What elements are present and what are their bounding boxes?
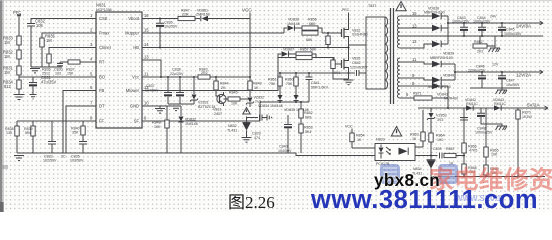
ground chassis (C848): [496, 126, 508, 130]
resistor R844: [215, 77, 217, 81]
svg-text:15: 15: [144, 28, 149, 33]
svg-text:C842: C842: [352, 61, 361, 65]
capacitor C832: [27, 24, 35, 65]
resistor R865 column: [485, 108, 487, 147]
svg-text:MBRF20H100: MBRF20H100: [430, 56, 453, 60]
svg-text:47K5: 47K5: [469, 149, 477, 153]
wire primary common rail: [17, 153, 375, 156]
wire sec center tap gnd rail: [400, 35, 543, 37]
wire pin15 Mupper gate: [142, 28, 342, 34]
svg-text:C839: C839: [433, 147, 442, 151]
wire half-bridge node: [348, 38, 350, 59]
resistor R848: [166, 106, 168, 120]
capacitor C838: [176, 77, 184, 93]
wire vcc gnd bus: [168, 103, 194, 105]
watermark logo disc 1: [380, 164, 400, 184]
wire pin4 RT: [60, 61, 96, 63]
svg-text:VD837: VD837: [283, 48, 294, 52]
resistor R851: [279, 73, 281, 77]
svg-text:47u/35V: 47u/35V: [41, 80, 57, 85]
capacitor C848: [477, 108, 485, 113]
svg-text:3V3: 3V3: [437, 118, 443, 122]
ground (C832): [30, 69, 40, 73]
capacitor C845: [498, 23, 506, 27]
resistor R843: [198, 75, 210, 79]
scan edge artifacts: [0, 0, 2, 212]
transformer primary winding arcs: [385, 17, 388, 89]
ground (lower MOSFET source): [344, 80, 354, 85]
resistor R832: [17, 50, 21, 59]
wire pin8 FF: [83, 121, 96, 126]
wire pin6 FB down: [63, 91, 96, 154]
svg-text:SF: SF: [134, 119, 140, 124]
svg-text:1M: 1M: [4, 40, 10, 45]
svg-text:RM11C: RM11C: [494, 102, 506, 106]
svg-text:1K: 1K: [357, 138, 362, 142]
capacitor C841: [306, 73, 313, 102]
resistor R857 (lower branch): [302, 31, 318, 35]
svg-text:N831: N831: [96, 3, 107, 8]
svg-text:VD834 1N4148: VD834 1N4148: [258, 104, 283, 108]
svg-text:12: 12: [412, 39, 417, 44]
wire R835 to gnd: [41, 47, 43, 67]
svg-text:10u/50V: 10u/50V: [164, 25, 178, 29]
watermark logo disc 2: [438, 164, 458, 184]
svg-text:SSS4N60: SSS4N60: [352, 33, 368, 37]
ground chassis (12V): [496, 88, 508, 94]
svg-text:www.3811111.com: www.3811111.com: [310, 186, 538, 212]
diode VD837: [278, 51, 296, 56]
wire sec tap5: [400, 78, 432, 80]
diode VD839: [432, 41, 441, 47]
svg-text:75K: 75K: [269, 82, 276, 86]
diode VD838a: [432, 13, 441, 19]
zener VZ832: [248, 98, 253, 103]
transformer secondary winding bottom: [397, 58, 400, 98]
wire pin11 Vcc rail: [142, 76, 250, 78]
svg-text:56P/1.6KV: 56P/1.6KV: [311, 85, 329, 89]
wire pin12 Mlower: [142, 54, 342, 91]
svg-text:1K: 1K: [412, 137, 417, 141]
resistor R840: [81, 126, 85, 135]
svg-text:2C: 2C: [61, 155, 66, 159]
svg-text:N833: N833: [376, 138, 385, 142]
capacitor C830: [57, 62, 63, 67]
svg-text:105: 105: [36, 23, 44, 28]
capacitor C843: [460, 23, 468, 27]
svg-text:1000u/25V: 1000u/25V: [475, 131, 493, 135]
svg-text:5K4: 5K4: [305, 130, 311, 134]
transistor Q2 V835 lower MOSFET: [341, 60, 343, 68]
ground (rail): [14, 156, 24, 161]
resistor R847: [178, 16, 195, 20]
svg-text:2K2: 2K2: [477, 50, 483, 54]
svg-text:Vboot: Vboot: [128, 16, 140, 21]
svg-text:DT: DT: [99, 104, 105, 109]
diode VD842: [466, 105, 473, 110]
resistor R835: [40, 38, 44, 47]
wire clamp bus to SF: [142, 102, 309, 121]
warning triangle (opto): [391, 127, 401, 137]
svg-text:103/50V: 103/50V: [70, 159, 84, 163]
diode VD834: [278, 95, 283, 100]
resistor R833: [17, 36, 21, 45]
zener VZ853 + resistor R864 column: [430, 108, 432, 113]
wire pin16 Vboot: [142, 18, 200, 20]
svg-text:1M: 1M: [4, 54, 10, 59]
svg-text:15K: 15K: [67, 72, 74, 76]
svg-text:24V/8A: 24V/8A: [516, 24, 532, 29]
capacitor C829: [247, 115, 268, 121]
svg-text:1000u/26V: 1000u/26V: [473, 20, 491, 24]
svg-text:VD840: VD840: [443, 74, 454, 78]
resistor R870: [517, 108, 519, 110]
capacitor C836 bootstrap: [159, 17, 161, 19]
ground (divider bottom): [14, 95, 25, 100]
svg-text:2200u/25V: 2200u/25V: [468, 68, 486, 72]
svg-text:BO: BO: [99, 75, 105, 80]
resistor R863 column: [422, 110, 424, 132]
ground (vcc): [171, 106, 181, 111]
wire 12V bus: [455, 64, 543, 80]
svg-text:104/50V: 104/50V: [145, 88, 159, 92]
node 12V/2A output: [540, 70, 544, 74]
wire 24V bus: [448, 16, 543, 44]
diode VD836: [284, 25, 302, 30]
svg-text:68K: 68K: [309, 22, 316, 26]
diode VD843: [494, 105, 501, 110]
svg-text:Mupper: Mupper: [125, 31, 140, 36]
capacitor C833: [48, 142, 56, 154]
resistor R836: [47, 54, 51, 63]
svg-text:2K: 2K: [221, 86, 226, 90]
svg-text:VCC: VCC: [242, 8, 252, 13]
svg-text:10u/50V: 10u/50V: [506, 83, 520, 87]
svg-text:15: 15: [412, 11, 417, 16]
resistor R866 column: [460, 108, 468, 143]
svg-text:Vcc: Vcc: [132, 75, 139, 80]
svg-text:Ctimer: Ctimer: [99, 45, 112, 50]
svg-text:R845: R845: [229, 91, 238, 95]
wire 12V gnd: [470, 87, 520, 89]
resistor R868: [462, 164, 466, 174]
resistor R845: [224, 98, 229, 100]
svg-text:13: 13: [144, 55, 149, 60]
svg-text:HB: HB: [133, 45, 139, 50]
svg-text:1N4148: 1N4148: [287, 22, 300, 26]
resistor R838: [15, 126, 19, 136]
svg-text:FF: FF: [99, 119, 105, 124]
svg-text:RT: RT: [99, 60, 105, 65]
wire VCC vertical: [249, 13, 251, 78]
wire pin5 BO: [19, 76, 96, 78]
wire sec tap1: [400, 15, 432, 17]
wire gnd bus under C832: [31, 64, 62, 67]
svg-text:ZMR160: ZMR160: [196, 13, 210, 17]
wire pin10 GND: [142, 105, 181, 107]
svg-text:7V5: 7V5: [255, 100, 261, 104]
warning triangle (mid): [243, 108, 250, 115]
svg-text:1K0: 1K0: [437, 138, 443, 142]
wire pin3 Ctimer: [49, 48, 96, 55]
diode VD851: [202, 16, 209, 21]
capacitor C834: [79, 135, 87, 153]
svg-text:GND: GND: [130, 104, 139, 109]
svg-text:R871: R871: [413, 92, 422, 96]
svg-text:MUR460: MUR460: [444, 97, 458, 101]
svg-text:V835: V835: [352, 57, 360, 61]
capacitor C842 resonant: [347, 72, 349, 74]
transformer secondary winding top: [397, 16, 400, 48]
svg-text:1000u/35V: 1000u/35V: [504, 32, 522, 36]
svg-text:12V/2A: 12V/2A: [516, 73, 532, 78]
svg-text:912: 912: [4, 84, 12, 89]
wire opto pins: [367, 147, 464, 156]
wire sec tap2: [400, 27, 432, 29]
capacitor C844: [478, 23, 486, 27]
svg-text:5V/2A: 5V/2A: [527, 103, 540, 108]
wire FF divider bus: [17, 121, 83, 141]
svg-text:Fmax: Fmax: [99, 31, 109, 36]
svg-text:6K8: 6K8: [305, 115, 311, 119]
svg-text:2407: 2407: [214, 112, 222, 116]
wire sec tap4: [400, 62, 432, 64]
wire HB: [142, 47, 349, 49]
capacitor C831 electrolytic: [29, 77, 37, 83]
svg-text:5K6: 5K6: [25, 131, 31, 135]
svg-text:102/50V: 102/50V: [43, 159, 57, 163]
svg-text:TL431: TL431: [227, 128, 237, 132]
svg-text:12V: 12V: [492, 63, 499, 67]
wire PFC down: [17, 14, 21, 94]
svg-text:R867: R867: [446, 147, 455, 151]
svg-text:1M: 1M: [4, 70, 10, 75]
svg-text:1M: 1M: [46, 38, 52, 43]
op-amp U1 : IC N831 NCP1396 box: [96, 12, 142, 128]
wire feedback bottom rail: [431, 176, 545, 178]
diode VD832: [180, 106, 182, 116]
resistor R849: [249, 77, 251, 81]
resistor R831: [17, 66, 21, 75]
resistor R854: [351, 129, 353, 134]
svg-text:122n/630V: 122n/630V: [350, 66, 368, 70]
capacitor C846: [478, 72, 486, 76]
transformer T837 primary box: [366, 17, 385, 89]
warning triangle (transformer): [396, 2, 406, 11]
svg-text:FB: FB: [99, 88, 105, 93]
transistor Q1 V832 upper MOSFET: [341, 29, 343, 37]
wire 5V / feedback rail: [418, 98, 548, 108]
resistor R858 gate-source: [327, 32, 329, 34]
resistor R856: [302, 26, 318, 30]
resistor R839: [31, 126, 35, 136]
svg-text:CSS: CSS: [99, 16, 108, 21]
svg-text:10K: 10K: [231, 102, 238, 106]
capacitor C839: [438, 151, 445, 160]
svg-text:PFC: PFC: [342, 8, 350, 12]
diode VD838b: [432, 25, 441, 31]
svg-text:MBR20H100: MBR20H100: [424, 11, 445, 15]
wire divider sense: [280, 72, 349, 74]
wire sec tap3: [400, 44, 432, 48]
svg-text:1N4148: 1N4148: [185, 122, 198, 126]
svg-text:104/50V: 104/50V: [278, 149, 292, 153]
resistor R862: [473, 36, 480, 46]
resistor R853: [300, 118, 302, 124]
svg-text:474: 474: [254, 136, 260, 140]
svg-text:VCC: VCC: [345, 125, 353, 129]
svg-text:13K: 13K: [6, 131, 13, 135]
svg-text:11: 11: [412, 57, 417, 62]
resistor R869: [484, 165, 488, 175]
capacitor C837: [164, 77, 172, 93]
resistor R859: [332, 58, 334, 61]
svg-text:24V: 24V: [490, 15, 497, 19]
resistor R834: [17, 80, 21, 89]
svg-text:NCP1396: NCP1396: [96, 8, 112, 12]
wire sec bottom + resistor R871: [400, 97, 448, 99]
resistor R867: [444, 153, 456, 157]
resistor R852: [300, 102, 302, 109]
wire sec tap6: [400, 85, 432, 87]
ground (pin10): [155, 106, 165, 113]
svg-text:1K: 1K: [254, 86, 259, 90]
svg-text:RM11C: RM11C: [466, 102, 478, 106]
transistor U2 N832 TL431: [243, 117, 251, 123]
svg-text:1K3W: 1K3W: [522, 115, 532, 119]
capacitor C847: [498, 72, 506, 76]
diode VD840b: [432, 77, 441, 83]
svg-text:R857 68K: R857 68K: [300, 48, 317, 52]
ground chassis (24V): [489, 36, 501, 52]
node 5V/2A output: [545, 106, 549, 110]
transistor Q3 V831: [217, 94, 226, 103]
svg-text:Mlower: Mlower: [126, 88, 140, 93]
diode VD841: [432, 83, 441, 89]
svg-text:14: 14: [144, 42, 149, 47]
svg-text:16: 16: [144, 13, 149, 18]
svg-text:35K: 35K: [72, 131, 79, 135]
svg-text:10K: 10K: [491, 153, 498, 157]
resistor R837: [68, 60, 80, 64]
svg-text:R862: R862: [474, 40, 483, 44]
svg-text:T837: T837: [368, 4, 376, 8]
node 24V/8A output: [540, 21, 544, 25]
resistor R850: [295, 73, 297, 77]
svg-text:图2.26: 图2.26: [228, 193, 275, 212]
wire HB tap to primary: [349, 44, 367, 46]
svg-text:10: 10: [144, 101, 149, 106]
ground (C829): [267, 115, 272, 121]
zener VZ831: [193, 77, 195, 94]
wire pin13 stub: [142, 60, 161, 77]
svg-text:75K: 75K: [286, 82, 293, 86]
svg-text:22u/25V: 22u/25V: [170, 72, 184, 76]
transformer core: [391, 8, 394, 104]
svg-text:MBRF20H100: MBRF20H100: [428, 85, 451, 89]
capacitor C840: [284, 115, 292, 125]
transistor U3 N834 TL431: [430, 154, 432, 156]
svg-text:68K: 68K: [306, 38, 313, 42]
diode VD835: [294, 95, 299, 100]
wire pin1 CSS: [31, 19, 96, 24]
svg-text:2R2: 2R2: [201, 71, 208, 75]
svg-text:22R: 22R: [182, 13, 189, 17]
wire R836 to gnd: [48, 63, 50, 67]
wire pin7 DT down: [66, 106, 96, 153]
wire pin2 Fmax: [42, 33, 96, 38]
svg-text:103: 103: [55, 72, 61, 76]
svg-text:11: 11: [144, 72, 149, 77]
svg-text:10K: 10K: [154, 125, 161, 129]
resistor R860: [296, 52, 312, 56]
diode VD840a: [432, 61, 441, 67]
svg-text:1000u/35V: 1000u/35V: [452, 20, 470, 24]
